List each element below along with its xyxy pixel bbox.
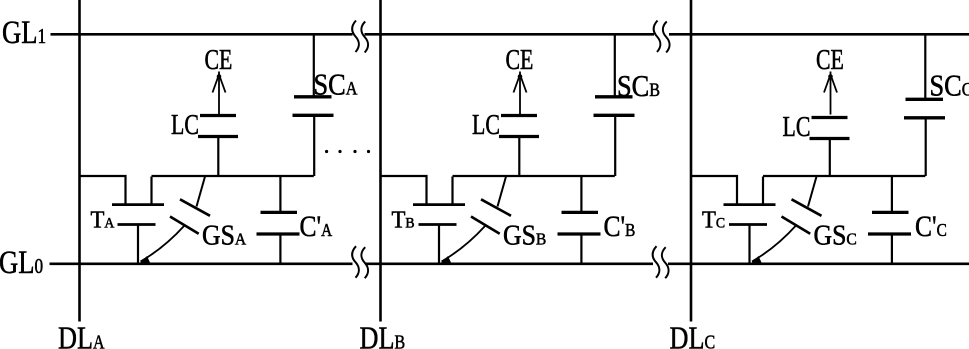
svg-text:LC: LC (783, 113, 811, 143)
svg-text:C'B: C'B (604, 210, 636, 243)
svg-text:CE: CE (506, 46, 534, 76)
transistor TB (381, 176, 466, 264)
ellipsis dots (continuation) (325, 150, 370, 153)
gate line GL1 (51, 33, 969, 36)
svg-text:GL1: GL1 (2, 16, 46, 51)
break symbol on GL0 (between cells B and C) (653, 246, 669, 278)
svg-text:SCA: SCA (314, 68, 358, 102)
capacitor LC (cell A) (198, 116, 238, 177)
svg-text:DLB: DLB (360, 321, 406, 349)
capacitor SCB (594, 34, 635, 176)
transistor TA (80, 176, 165, 264)
gate line GL0 (50, 262, 969, 265)
svg-text:SCC: SCC (930, 69, 969, 103)
arrow to CE (cell A) (213, 72, 226, 115)
capacitor SCC (904, 34, 945, 176)
svg-text:GL0: GL0 (0, 246, 43, 281)
svg-text:DLC: DLC (670, 321, 716, 349)
capacitor C'A (257, 176, 300, 264)
capacitor LC (cell C) (810, 118, 850, 177)
capacitor GSA (139, 177, 211, 265)
svg-text:CE: CE (205, 46, 233, 76)
data line DLC (690, 0, 693, 322)
break symbol on GL1 (between cells A and B) (352, 21, 368, 53)
data line DLB (379, 0, 382, 322)
svg-text:C'A: C'A (300, 210, 333, 243)
break symbol on GL1 (between cells B and C) (654, 21, 670, 53)
svg-text:TC: TC (702, 207, 725, 234)
svg-text:TA: TA (91, 207, 116, 234)
wire pixel node B (453, 175, 615, 177)
capacitor GSB (440, 177, 512, 265)
svg-text:C'C: C'C (915, 210, 947, 243)
svg-text:GSB: GSB (503, 220, 546, 251)
capacitor C'B (558, 176, 601, 264)
svg-text:GSC: GSC (814, 220, 857, 251)
svg-text:LC: LC (171, 111, 199, 141)
svg-text:DLA: DLA (58, 321, 105, 349)
capacitor C'C (868, 176, 911, 264)
svg-text:SCB: SCB (617, 69, 660, 103)
capacitor SCA (293, 34, 334, 176)
svg-text:CE: CE (816, 46, 844, 76)
arrow to CE (cell B) (514, 72, 527, 115)
svg-text:TB: TB (392, 207, 415, 234)
svg-text:GSA: GSA (202, 220, 246, 251)
capacitor LC (cell B) (499, 116, 539, 177)
arrow to CE (cell C) (824, 72, 837, 115)
wire pixel node A (152, 175, 314, 177)
data line DLA (78, 0, 81, 322)
transistor TC (691, 176, 776, 264)
wire pixel node C (763, 175, 925, 177)
break symbol on GL0 (between cells A and B) (352, 246, 368, 278)
svg-text:LC: LC (472, 111, 500, 141)
capacitor GSC (750, 177, 822, 265)
